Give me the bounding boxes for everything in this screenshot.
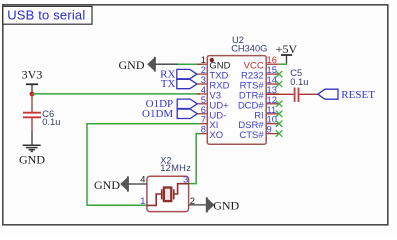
wire U2 pin 7 XI to crystal pin 1 xyxy=(87,124,200,206)
capacitor C5 xyxy=(295,88,299,102)
svg-text:+5V: +5V xyxy=(276,42,298,56)
ground symbol below C6 xyxy=(23,145,41,151)
U2 pin 1 marker dot xyxy=(210,58,214,62)
U2 pin 16 stub xyxy=(266,63,279,65)
port RESET xyxy=(318,89,338,99)
wire U2 pin 8 XO to crystal pin 3 xyxy=(189,134,200,184)
svg-text:CTS#: CTS# xyxy=(239,130,264,141)
U2 pin 13 stub xyxy=(266,93,279,95)
wire GND symbol to U2 pin 1 xyxy=(156,63,203,65)
U2 pin 8 stub xyxy=(197,133,208,135)
svg-text:3: 3 xyxy=(183,174,188,185)
wire C5 to RESET port xyxy=(299,93,318,95)
port O1DM xyxy=(177,109,197,118)
svg-text:4: 4 xyxy=(140,174,145,185)
svg-text:GND: GND xyxy=(94,178,120,192)
svg-text:2: 2 xyxy=(190,195,195,206)
no-connect X at pin 11 xyxy=(276,111,283,117)
svg-text:8: 8 xyxy=(201,124,206,135)
svg-text:USB to serial: USB to serial xyxy=(7,7,85,22)
svg-text:GND: GND xyxy=(119,58,145,72)
no-connect X at pin 14 xyxy=(276,81,283,87)
U2 pin 9 stub xyxy=(266,133,279,135)
crystal X2 body xyxy=(147,176,189,211)
op IC U2 body xyxy=(207,56,266,145)
U2 pin 1 stub xyxy=(197,63,208,65)
wire U2 pin 13 to C5 xyxy=(266,93,294,95)
title box xyxy=(3,6,92,24)
power symbol 3V3 xyxy=(26,84,38,94)
wire crystal pin 2 to GND symbol xyxy=(189,204,207,206)
svg-text:1: 1 xyxy=(140,195,145,206)
no-connect X at pin 12 xyxy=(276,101,283,107)
junction dot on 3V3 net xyxy=(30,92,35,97)
svg-text:XO: XO xyxy=(209,130,223,141)
svg-text:O1DM: O1DM xyxy=(142,108,173,120)
port RX xyxy=(177,69,197,78)
svg-text:TX: TX xyxy=(161,78,176,90)
svg-text:0.1u: 0.1u xyxy=(290,77,308,87)
svg-text:9: 9 xyxy=(267,124,272,135)
U2 pin 5 stub xyxy=(197,103,208,105)
ground symbol at U2 pin 1 xyxy=(147,57,155,72)
port TX xyxy=(177,79,197,88)
svg-text:RESET: RESET xyxy=(341,89,375,101)
svg-text:GND: GND xyxy=(19,152,45,166)
wire GND symbol to crystal pin 4 xyxy=(129,183,147,185)
ground symbol left of crystal xyxy=(120,176,128,191)
svg-text:12MHz: 12MHz xyxy=(160,162,191,173)
U2 pin 6 stub xyxy=(197,113,208,115)
U2 pin 2 stub xyxy=(197,73,208,75)
U2 pin 10 stub xyxy=(266,123,279,125)
no-connect X at pin 15 xyxy=(276,71,283,77)
U2 pin 15 stub xyxy=(266,73,279,75)
power symbol +5V xyxy=(281,55,292,64)
svg-text:GND: GND xyxy=(213,199,239,213)
wire C6 to earth ground xyxy=(31,131,33,145)
U2 pin 12 stub xyxy=(266,103,279,105)
U2 pin 14 stub xyxy=(266,83,279,85)
no-connect X at pin 10 xyxy=(276,121,283,127)
svg-text:0.1u: 0.1u xyxy=(42,117,60,127)
wire 3V3 net to U2 pin 4 V3 xyxy=(32,93,200,95)
svg-text:CH340G: CH340G xyxy=(231,43,267,53)
U2 pin 7 stub xyxy=(197,123,208,125)
port O1DP xyxy=(177,99,197,108)
U2 pin 3 stub xyxy=(197,83,208,85)
ground symbol right of crystal xyxy=(207,197,215,212)
U2 pin 11 stub xyxy=(266,113,279,115)
svg-text:3V3: 3V3 xyxy=(22,68,43,82)
capacitor C6 xyxy=(23,94,41,131)
crystal X2 symbol xyxy=(147,184,189,206)
no-connect X at pin 9 xyxy=(276,130,283,136)
wire U2 pin 16 to +5V xyxy=(279,63,287,65)
U2 pin 4 stub xyxy=(197,93,208,95)
